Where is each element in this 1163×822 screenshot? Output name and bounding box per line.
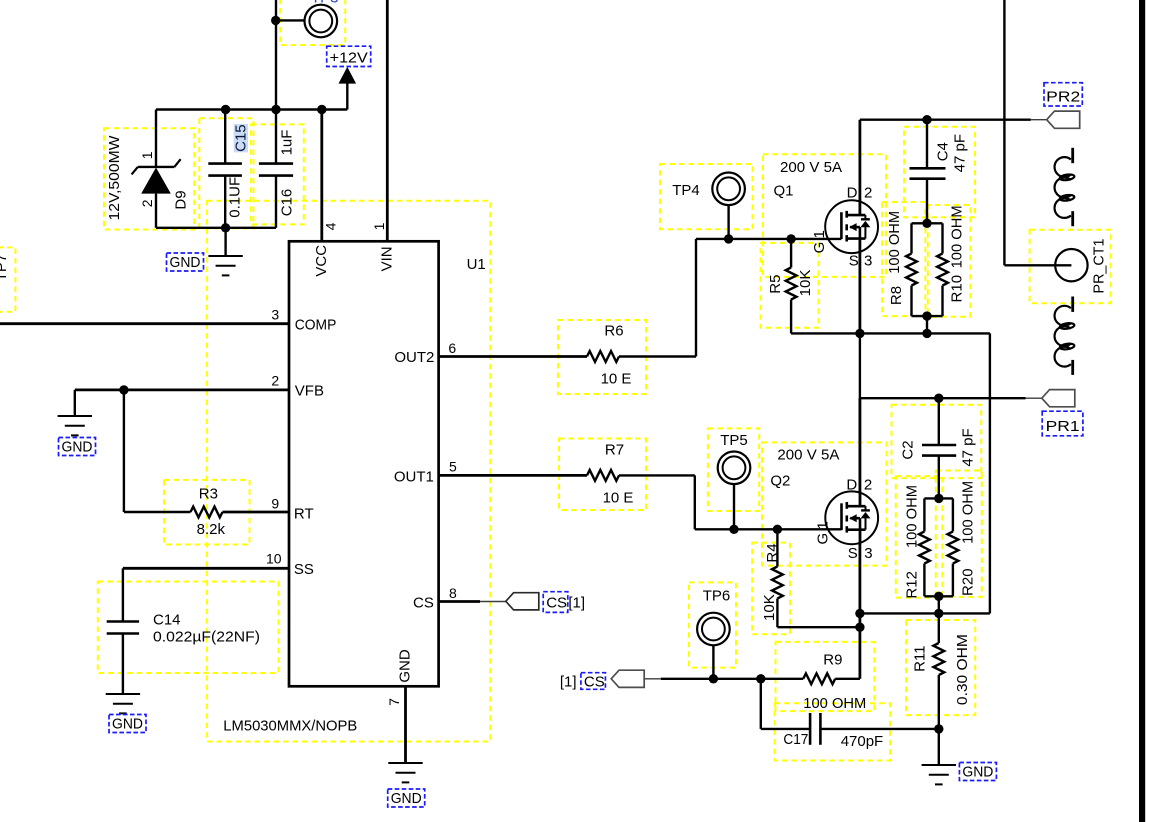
svg-text:TP3: TP3 bbox=[311, 0, 339, 7]
ground symbol at VFB bbox=[74, 390, 76, 416]
svg-text:100 OHM: 100 OHM bbox=[904, 485, 921, 548]
selection box C14 bbox=[98, 582, 279, 674]
selection box PR_CT1 bbox=[1030, 230, 1111, 303]
selection box R6 bbox=[558, 320, 646, 394]
selection box R3 bbox=[164, 480, 250, 545]
resistor R12 zigzag bbox=[919, 532, 930, 564]
svg-text:4: 4 bbox=[322, 222, 338, 230]
selection box R20 bbox=[936, 471, 982, 597]
svg-text:47 pF: 47 pF bbox=[960, 428, 977, 466]
GND label bbox=[959, 763, 996, 781]
svg-text:GND: GND bbox=[397, 649, 414, 683]
svg-text:[1]: [1] bbox=[568, 595, 585, 612]
power symbol +12V bbox=[346, 83, 348, 110]
svg-text:8: 8 bbox=[449, 585, 457, 601]
svg-text:10 E: 10 E bbox=[601, 371, 632, 388]
selection box C17 bbox=[775, 703, 890, 760]
svg-text:COMP: COMP bbox=[295, 317, 337, 334]
svg-text:2: 2 bbox=[139, 199, 155, 207]
resistor R6 zigzag bbox=[587, 351, 619, 362]
svg-text:CS: CS bbox=[546, 595, 567, 612]
selection box C4 bbox=[904, 127, 975, 217]
svg-text:0.1UF: 0.1UF bbox=[226, 177, 243, 218]
GND label bbox=[167, 253, 204, 271]
svg-text:SS: SS bbox=[294, 561, 314, 578]
svg-text:5: 5 bbox=[449, 458, 457, 474]
svg-text:RT: RT bbox=[294, 506, 314, 523]
svg-text:10 E: 10 E bbox=[603, 489, 634, 506]
resistor R4 zigzag bbox=[772, 567, 783, 599]
resistor R11 zigzag bbox=[933, 643, 944, 675]
svg-text:1: 1 bbox=[371, 222, 387, 230]
ground symbol under C14 bbox=[106, 693, 140, 695]
svg-text:OUT2: OUT2 bbox=[394, 349, 434, 366]
svg-text:R6: R6 bbox=[604, 323, 623, 340]
transistor Q1 (N-MOSFET) bbox=[825, 200, 878, 253]
svg-text:R20: R20 bbox=[959, 568, 976, 596]
ground symbol at R11 bbox=[938, 729, 940, 765]
svg-text:PR1: PR1 bbox=[1046, 418, 1080, 435]
selection box R4 bbox=[752, 543, 790, 635]
wire to PR2 bbox=[860, 118, 1031, 120]
svg-text:9: 9 bbox=[271, 496, 279, 512]
capacitor C14 0.022uF bbox=[122, 568, 124, 621]
svg-text:D9: D9 bbox=[172, 190, 189, 209]
node dot bbox=[271, 105, 280, 114]
svg-text:1uF: 1uF bbox=[279, 130, 296, 156]
svg-text:GND: GND bbox=[62, 439, 93, 456]
svg-text:100 OHM: 100 OHM bbox=[886, 211, 903, 274]
wire CS net bbox=[661, 678, 803, 680]
node dot bbox=[934, 494, 943, 503]
wire bbox=[275, 0, 277, 110]
selection box TP6 bbox=[689, 582, 736, 667]
svg-text:PR2: PR2 bbox=[1046, 89, 1080, 106]
svg-text:C14: C14 bbox=[153, 612, 181, 629]
node dot bbox=[317, 105, 326, 114]
svg-text:C16: C16 bbox=[279, 189, 296, 217]
node dot bbox=[855, 329, 864, 338]
svg-text:1: 1 bbox=[139, 151, 155, 159]
selection box Q1 bbox=[763, 154, 886, 277]
svg-text:8.2k: 8.2k bbox=[197, 521, 226, 538]
svg-text:G: G bbox=[811, 242, 828, 254]
resistor R5 zigzag bbox=[786, 268, 797, 300]
wire bbox=[276, 19, 305, 21]
node dot bbox=[271, 16, 280, 25]
wire Q1 source bbox=[859, 253, 862, 334]
test point TP4 bbox=[727, 205, 729, 239]
svg-text:Q1: Q1 bbox=[774, 182, 794, 199]
resistor R3 zigzag bbox=[191, 507, 223, 518]
selection box R8 bbox=[882, 202, 928, 316]
node dot bbox=[221, 105, 230, 114]
svg-text:1: 1 bbox=[814, 521, 831, 529]
svg-text:100 OHM: 100 OHM bbox=[949, 205, 966, 268]
svg-text:VFB: VFB bbox=[295, 383, 324, 400]
svg-text:10K: 10K bbox=[797, 270, 814, 297]
pin SS 10 bbox=[123, 567, 289, 570]
pin GND 7 bbox=[404, 686, 407, 763]
selection box R5 bbox=[761, 243, 819, 328]
svg-text:GND: GND bbox=[391, 790, 422, 807]
node dot bbox=[786, 234, 795, 243]
off-page connector CS[1] bbox=[506, 593, 539, 610]
op IC U1 LM5030 body bbox=[289, 241, 439, 686]
pin OUT2 6 bbox=[439, 355, 587, 358]
capacitor C4 47pF bbox=[926, 120, 928, 169]
svg-text:OUT1: OUT1 bbox=[394, 468, 434, 485]
svg-text:S: S bbox=[849, 253, 859, 270]
resistors R12 / R20 100 OHM parallel bbox=[924, 497, 953, 499]
resistor R5 10K bbox=[790, 239, 792, 268]
GND label bbox=[388, 789, 425, 807]
svg-text:R5: R5 bbox=[767, 275, 784, 294]
test point TP6 bbox=[712, 645, 714, 679]
svg-text:12V,500MW: 12V,500MW bbox=[106, 135, 123, 221]
svg-text:R9: R9 bbox=[823, 652, 842, 669]
wire center-tap feed bbox=[1003, 0, 1005, 265]
node dot bbox=[855, 623, 864, 632]
ground symbol at pin 7 bbox=[388, 762, 422, 764]
svg-text:2: 2 bbox=[864, 184, 872, 201]
svg-text:[1]: [1] bbox=[560, 674, 577, 691]
svg-text:470pF: 470pF bbox=[841, 733, 884, 750]
svg-text:6: 6 bbox=[448, 340, 456, 356]
svg-text:R11: R11 bbox=[911, 645, 928, 671]
node dot bbox=[756, 674, 765, 683]
node dot bbox=[934, 724, 943, 733]
node dot bbox=[922, 115, 931, 124]
node dot bbox=[773, 525, 782, 534]
wire riser to gate of Q1 bbox=[695, 239, 697, 357]
off-page connector PR2 bbox=[1047, 111, 1080, 128]
svg-text:R3: R3 bbox=[199, 486, 218, 503]
svg-text:C4: C4 bbox=[935, 142, 952, 161]
node dot bbox=[922, 219, 931, 228]
svg-text:Q2: Q2 bbox=[770, 472, 790, 489]
svg-text:10: 10 bbox=[266, 551, 282, 567]
capacitor C16 bbox=[275, 110, 277, 164]
wire Q1 drain bbox=[859, 120, 862, 201]
pin COMP 3 / wire from TP7 bbox=[0, 322, 289, 325]
svg-text:D: D bbox=[847, 184, 858, 201]
selection box C15 bbox=[199, 118, 253, 228]
svg-text:200 V 5A: 200 V 5A bbox=[780, 159, 842, 176]
svg-text:100 OHM: 100 OHM bbox=[803, 695, 866, 712]
selection box C16 bbox=[251, 124, 304, 224]
selection box R10 bbox=[925, 205, 970, 317]
svg-text:1: 1 bbox=[811, 230, 828, 238]
svg-text:R12: R12 bbox=[904, 571, 921, 599]
svg-text:C17: C17 bbox=[783, 731, 808, 748]
svg-text:VIN: VIN bbox=[378, 246, 395, 271]
svg-text:R8: R8 bbox=[888, 286, 905, 305]
wire Q1 source to Q2 drain column bbox=[859, 333, 861, 491]
svg-text:2: 2 bbox=[864, 476, 872, 493]
capacitor C17 470pF bbox=[760, 679, 762, 729]
svg-text:G: G bbox=[814, 533, 831, 545]
pin VIN 1 bbox=[386, 0, 389, 241]
node dot bbox=[855, 609, 864, 618]
svg-text:S: S bbox=[848, 545, 858, 562]
test point TP5 bbox=[733, 484, 735, 529]
wire down right side bbox=[989, 333, 991, 613]
GND label bbox=[109, 715, 146, 733]
ground symbol bbox=[224, 228, 226, 256]
node dot bbox=[724, 234, 733, 243]
svg-text:C2: C2 bbox=[900, 440, 917, 459]
svg-text:0.30 OHM: 0.30 OHM bbox=[954, 634, 971, 705]
wire Q2 drain bbox=[859, 398, 862, 491]
svg-text:3: 3 bbox=[864, 545, 872, 562]
capacitor C2 47pF bbox=[938, 398, 940, 445]
resistor R11 0.30 OHM bbox=[938, 613, 940, 643]
selection box R9 bbox=[776, 642, 875, 711]
node dot bbox=[934, 609, 943, 618]
svg-text:PR_CT1: PR_CT1 bbox=[1091, 239, 1108, 294]
wire top rail bbox=[156, 108, 347, 110]
wire to PR1 bbox=[860, 397, 1026, 399]
node dot bbox=[934, 592, 943, 601]
selection box TP7 bbox=[0, 247, 15, 311]
svg-text:U1: U1 bbox=[467, 256, 486, 273]
selection box R12 bbox=[896, 476, 943, 597]
svg-text:GND: GND bbox=[170, 254, 201, 271]
svg-text:7: 7 bbox=[386, 698, 402, 706]
selection box TP5 bbox=[708, 428, 759, 511]
pin VFB 2 bbox=[75, 388, 289, 391]
svg-text:2: 2 bbox=[271, 373, 279, 389]
selection box TP3 bbox=[280, 0, 345, 45]
node dot bbox=[922, 311, 931, 320]
resistor R4 10K bbox=[776, 529, 778, 566]
test point TP3 bbox=[305, 5, 338, 38]
svg-text:R7: R7 bbox=[605, 441, 624, 458]
svg-text:LM5030MMX/NOPB: LM5030MMX/NOPB bbox=[223, 717, 357, 734]
svg-text:C15: C15 bbox=[232, 124, 249, 152]
node dot bbox=[922, 329, 931, 338]
off-page connector PR1 bbox=[1042, 390, 1075, 407]
svg-text:CS: CS bbox=[584, 674, 605, 691]
svg-text:47 pF: 47 pF bbox=[951, 134, 968, 172]
selection box C2 bbox=[892, 405, 982, 478]
GND label bbox=[59, 438, 96, 456]
transistor Q2 (N-MOSFET) bbox=[825, 491, 878, 544]
zener diode D9 bbox=[155, 110, 157, 167]
resistor R7 zigzag bbox=[587, 470, 619, 481]
capacitor C15 bbox=[224, 110, 226, 164]
svg-text:3: 3 bbox=[864, 253, 872, 270]
schematic page border bbox=[1139, 0, 1145, 822]
wire bbox=[156, 227, 276, 229]
selection box R11 bbox=[906, 620, 975, 715]
svg-text:+12V: +12V bbox=[330, 49, 368, 66]
pin RT 9 bbox=[123, 390, 125, 512]
inductor winding primary lower bbox=[1055, 297, 1075, 375]
pin VCC 4 bbox=[320, 110, 323, 242]
selection box TP4 bbox=[660, 164, 753, 229]
node dot bbox=[709, 674, 718, 683]
resistors R8 / R10 100 OHM parallel bbox=[912, 222, 943, 224]
pin CS 8 bbox=[439, 600, 480, 603]
svg-text:0.022µF(22NF): 0.022µF(22NF) bbox=[153, 629, 260, 646]
off-page bubble PR_CT1 bbox=[1055, 249, 1087, 281]
resistor R10 zigzag bbox=[937, 254, 948, 286]
svg-text:R10: R10 bbox=[949, 275, 966, 303]
svg-text:D: D bbox=[846, 476, 857, 493]
node dot bbox=[221, 223, 230, 232]
svg-text:TP4: TP4 bbox=[672, 182, 700, 199]
selection box Q2 bbox=[762, 442, 887, 565]
svg-text:TP6: TP6 bbox=[703, 587, 731, 604]
svg-text:CS: CS bbox=[413, 594, 434, 611]
selection box U1 bbox=[207, 201, 490, 742]
svg-text:10K: 10K bbox=[761, 594, 778, 621]
svg-text:TP5: TP5 bbox=[720, 432, 748, 449]
resistor R9 zigzag bbox=[803, 673, 835, 684]
inductor winding primary upper bbox=[1055, 148, 1075, 226]
svg-text:GND: GND bbox=[962, 764, 993, 781]
svg-text:VCC: VCC bbox=[313, 245, 330, 277]
svg-text:TP7: TP7 bbox=[0, 254, 10, 282]
node dot bbox=[729, 525, 738, 534]
node dot bbox=[934, 394, 943, 403]
wire riser to gate of Q2 bbox=[694, 475, 696, 529]
svg-text:200 V 5A: 200 V 5A bbox=[777, 447, 839, 464]
resistor R8 zigzag bbox=[906, 254, 917, 286]
wire Q2 source bbox=[859, 544, 862, 679]
selection box D9 bbox=[104, 128, 194, 229]
pin OUT1 5 bbox=[439, 474, 587, 477]
wire sources rail bbox=[791, 332, 990, 334]
svg-text:100 OHM: 100 OHM bbox=[959, 481, 976, 544]
node dot bbox=[119, 385, 128, 394]
selection box R7 bbox=[559, 439, 646, 511]
svg-text:3: 3 bbox=[271, 306, 279, 322]
svg-text:GND: GND bbox=[112, 716, 143, 733]
wire R4 return to source bbox=[777, 626, 860, 628]
resistor R20 zigzag bbox=[948, 532, 959, 564]
svg-text:R4: R4 bbox=[764, 543, 781, 562]
